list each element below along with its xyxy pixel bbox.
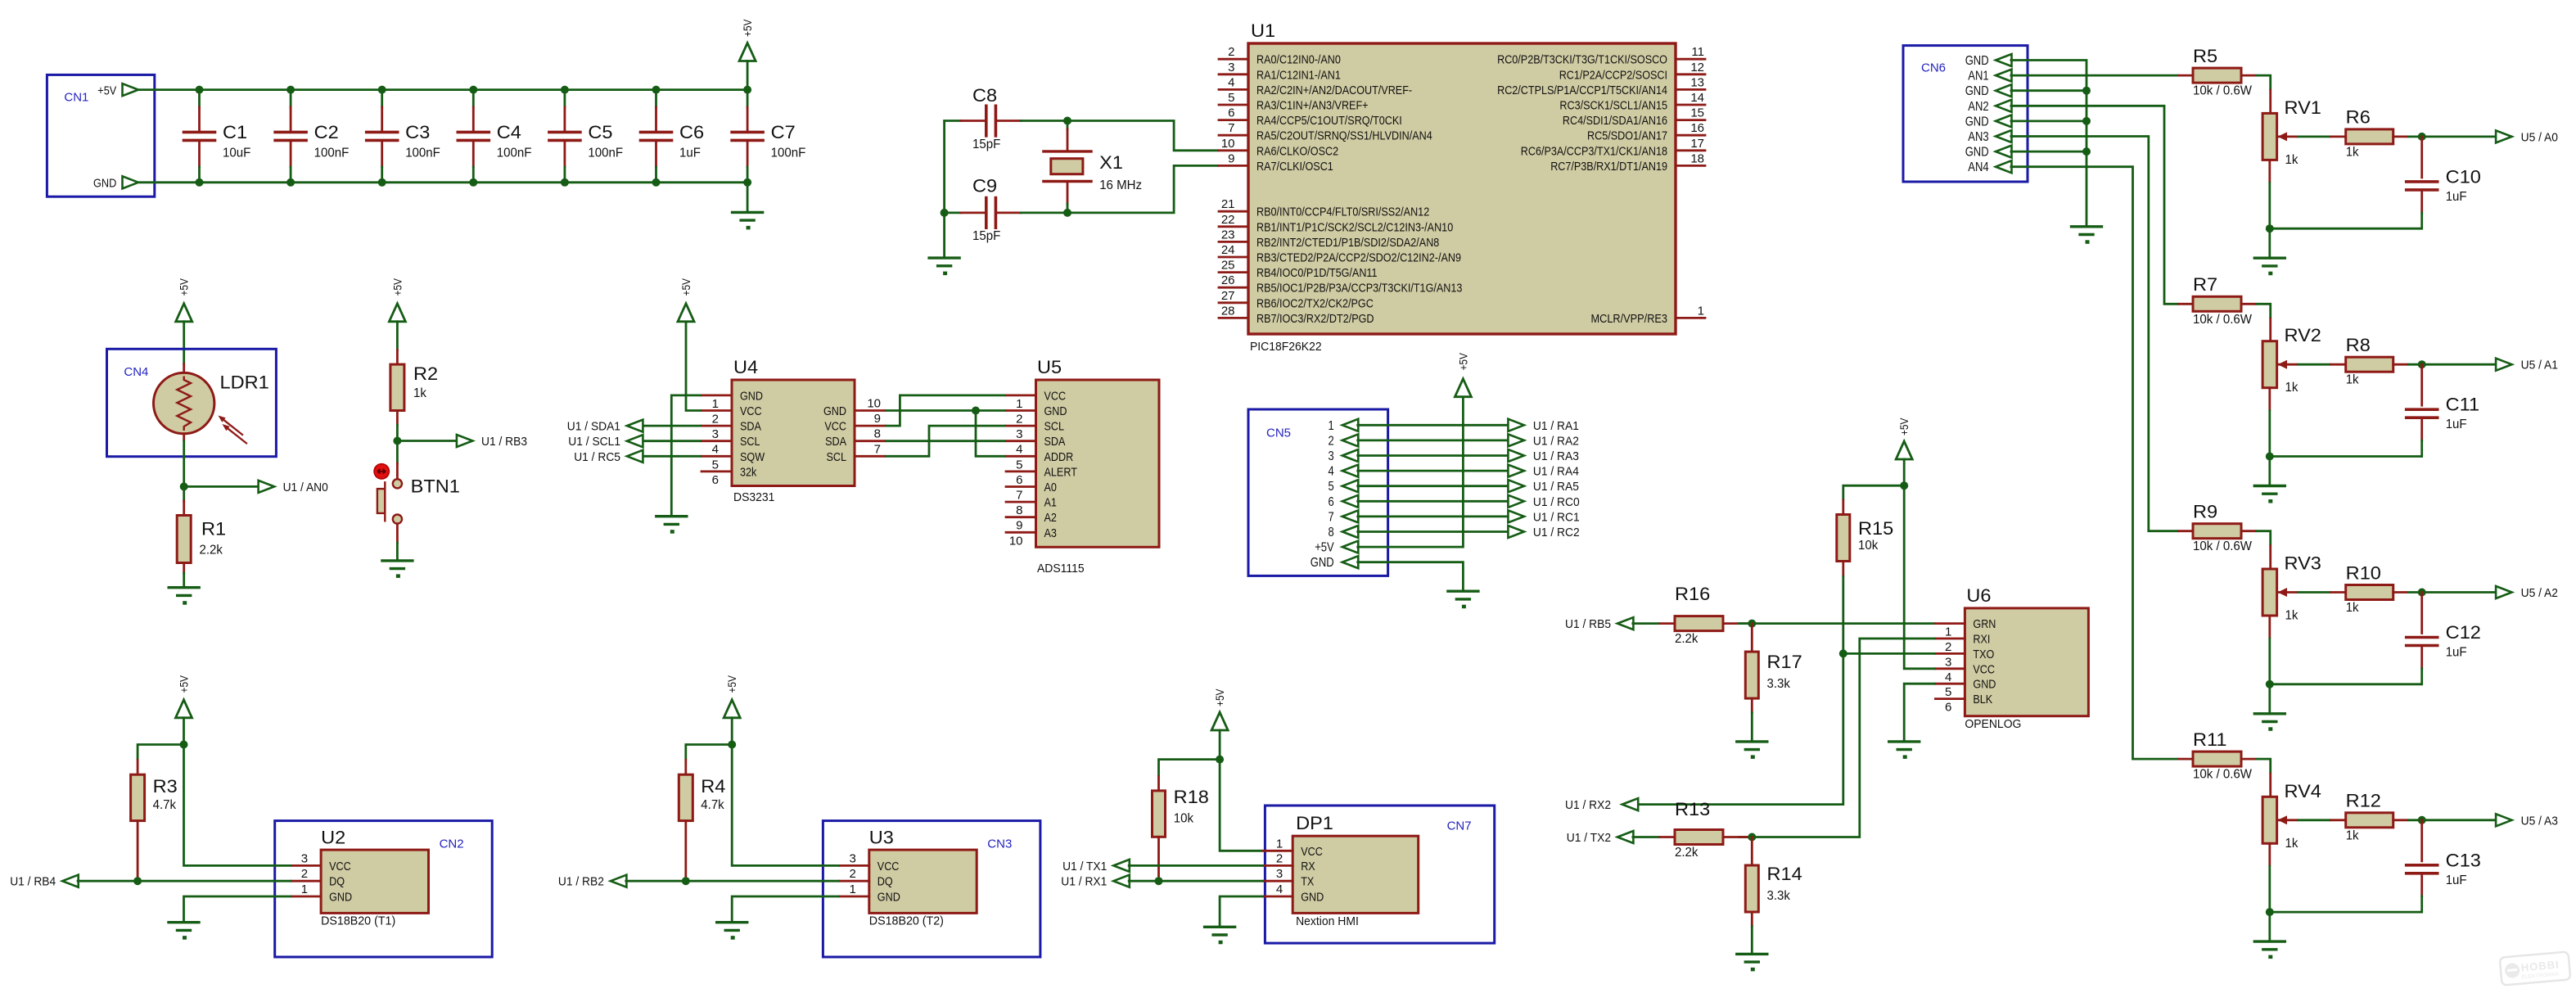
- svg-text:ADS1115: ADS1115: [1037, 562, 1085, 575]
- svg-text:VCC: VCC: [329, 860, 351, 873]
- svg-text:ADDR: ADDR: [1044, 450, 1074, 464]
- wire GND to U5 ADDR: [976, 411, 1006, 457]
- U1 pin 1 MCLR: [1591, 304, 1706, 326]
- U1 pin 9 RA7: [1219, 151, 1333, 174]
- U1 pin 2 RA0: [1219, 45, 1341, 67]
- svg-text:+5V: +5V: [1315, 541, 1334, 555]
- ground below CN6: [2072, 227, 2102, 244]
- U1 pin 13 RC2: [1497, 75, 1705, 97]
- junction R8 output: [2418, 360, 2426, 368]
- wire U4 SCL to U5 SCL: [885, 426, 1006, 456]
- svg-text:U1 / TX2: U1 / TX2: [1567, 831, 1611, 845]
- svg-text:AN1: AN1: [1968, 70, 1988, 84]
- U1 pin 21 RB0: [1219, 197, 1429, 219]
- svg-text:+5V: +5V: [390, 278, 404, 296]
- svg-text:BTN1: BTN1: [411, 476, 460, 497]
- CN5 pin 3: [1329, 449, 1359, 463]
- svg-text:GND: GND: [1973, 678, 1996, 692]
- svg-text:4: 4: [1329, 465, 1335, 479]
- svg-text:VCC: VCC: [1301, 845, 1323, 859]
- svg-text:U5 / A2: U5 / A2: [2521, 586, 2558, 600]
- ground below R17: [1737, 742, 1767, 759]
- capacitor C5: [549, 90, 623, 183]
- wire U4 SDA to U5 SDA: [885, 440, 1006, 442]
- svg-text:RA1/C12IN1-/AN1: RA1/C12IN1-/AN1: [1256, 68, 1341, 82]
- svg-text:VCC: VCC: [740, 404, 762, 418]
- wire CN5 8 to label: [1356, 530, 1509, 533]
- svg-text:RC7/P3B/RX1/DT1/AN19: RC7/P3B/RX1/DT1/AN19: [1550, 160, 1667, 174]
- U4 pin 4 SCL: [702, 435, 760, 457]
- svg-text:RV3: RV3: [2285, 553, 2321, 574]
- svg-text:RXI: RXI: [1973, 633, 1990, 647]
- junction C6 bottom: [652, 178, 661, 187]
- svg-text:1: 1: [1016, 397, 1022, 411]
- junction C5 bottom: [561, 178, 569, 187]
- svg-text:RB2/INT2/CTED1/P1B/SDI2/SDA2/A: RB2/INT2/CTED1/P1B/SDI2/SDA2/AN8: [1256, 236, 1439, 250]
- svg-text:3: 3: [1016, 427, 1022, 441]
- svg-text:1k: 1k: [2285, 837, 2299, 851]
- svg-text:SDA: SDA: [740, 420, 761, 434]
- wire node RB3 to label: [397, 440, 458, 442]
- svg-text:TX: TX: [1301, 875, 1314, 889]
- svg-text:R5: R5: [2193, 46, 2217, 66]
- svg-text:U6: U6: [1966, 585, 1991, 606]
- svg-text:RV2: RV2: [2285, 325, 2321, 345]
- svg-text:U1 / RC0: U1 / RC0: [1533, 495, 1580, 509]
- svg-text:C11: C11: [2446, 395, 2479, 415]
- svg-text:A2: A2: [1044, 511, 1057, 525]
- svg-text:9: 9: [874, 412, 881, 426]
- wire RV4 wiper to R12: [2297, 819, 2331, 821]
- U1 pin 15 RC4: [1563, 106, 1705, 129]
- svg-text:R2: R2: [413, 363, 438, 384]
- wire +5V to R15: [1843, 485, 1904, 500]
- svg-text:RA7/CLKI/OSC1: RA7/CLKI/OSC1: [1256, 160, 1333, 174]
- wire U4 SCL to label: [641, 440, 702, 442]
- svg-text:RA2/C2IN+/AN2/DACOUT/VREF-: RA2/C2IN+/AN2/DACOUT/VREF-: [1256, 84, 1412, 97]
- wire TXO node down to RX2: [1636, 653, 1843, 804]
- CN6 pin GND: [1965, 146, 2012, 160]
- power +5V above U3: [724, 675, 740, 744]
- svg-text:2: 2: [1329, 434, 1334, 448]
- wire TX1 to DP1 RX: [1128, 864, 1263, 867]
- svg-text:4: 4: [1016, 443, 1022, 457]
- svg-text:Nextion HMI: Nextion HMI: [1296, 914, 1359, 928]
- ground below U2: [169, 923, 199, 940]
- potentiometer RV1: [2262, 90, 2321, 182]
- wire RV2 wiper to R8: [2297, 363, 2331, 366]
- ground below C8 C9: [929, 258, 959, 275]
- svg-text:ALERT: ALERT: [1044, 465, 1077, 479]
- svg-text:U1 / RA1: U1 / RA1: [1533, 419, 1579, 433]
- resistor R13: [1660, 799, 1752, 860]
- power +5V above R2: [389, 278, 405, 350]
- junction C1 bottom: [196, 178, 204, 187]
- svg-text:U1 / RB2: U1 / RB2: [558, 875, 604, 889]
- wire +5V down to U2 VCC: [184, 745, 292, 866]
- wire U4 SDA to label: [641, 425, 702, 427]
- svg-text:10k: 10k: [1174, 812, 1194, 826]
- svg-text:R14: R14: [1767, 864, 1802, 884]
- svg-text:U5 / A1: U5 / A1: [2521, 359, 2558, 372]
- U4 pin 1 GND: [702, 389, 763, 411]
- svg-text:R16: R16: [1675, 584, 1710, 604]
- U1 pin 14 RC3: [1559, 91, 1705, 113]
- svg-text:RB0/INT0/CCP4/FLT0/SRI/SS2/AN1: RB0/INT0/CCP4/FLT0/SRI/SS2/AN12: [1256, 205, 1429, 219]
- svg-text:GND: GND: [1965, 115, 1989, 129]
- wire U4 GND down: [671, 395, 702, 517]
- junction R18 RX1: [1155, 877, 1163, 885]
- svg-text:+5V: +5V: [679, 278, 692, 296]
- svg-text:4.7k: 4.7k: [701, 798, 724, 812]
- U5 pin 4 SDA: [1006, 435, 1065, 457]
- wire +5V down to U3 VCC: [732, 745, 840, 866]
- wire CN5 5 to label: [1356, 485, 1509, 487]
- U1 pin 28 RB7: [1219, 304, 1374, 326]
- net label U1 / TX2: [1567, 831, 1634, 845]
- net label U5 / A0: [2496, 130, 2558, 144]
- svg-text:LDR1: LDR1: [220, 372, 269, 393]
- power +5V above U4: [678, 278, 694, 321]
- svg-text:1k: 1k: [2285, 153, 2299, 167]
- connector CN4 box: [107, 349, 277, 456]
- U1 pin 7 RA5: [1219, 121, 1432, 143]
- svg-text:10k / 0.6W: 10k / 0.6W: [2193, 84, 2253, 98]
- svg-text:15pF: 15pF: [972, 229, 1001, 243]
- svg-text:DS18B20 (T2): DS18B20 (T2): [869, 914, 944, 928]
- wire +5V down to DP1 VCC: [1220, 760, 1263, 851]
- svg-text:7: 7: [1329, 510, 1334, 524]
- svg-text:GND: GND: [93, 177, 116, 191]
- svg-text:8: 8: [1016, 503, 1022, 517]
- net label U1 / RC1: [1508, 510, 1579, 524]
- svg-text:3: 3: [849, 851, 855, 865]
- U4 pin 5 SQW: [702, 450, 765, 472]
- wire U4 GND to U5 GND: [885, 409, 1006, 412]
- resistor R18: [1153, 777, 1209, 882]
- U6 pin 2 RXI: [1935, 633, 1990, 655]
- svg-text:1: 1: [1329, 419, 1334, 433]
- svg-text:RA4/CCP5/C1OUT/SRQ/T0CKI: RA4/CCP5/C1OUT/SRQ/T0CKI: [1256, 114, 1402, 128]
- capacitor C10: [2407, 137, 2481, 228]
- junction X1 bottom: [1063, 209, 1071, 217]
- svg-text:10: 10: [867, 397, 881, 411]
- svg-text:RV1: RV1: [2285, 97, 2321, 118]
- svg-text:2: 2: [1016, 413, 1022, 427]
- svg-text:MCLR/VPP/RE3: MCLR/VPP/RE3: [1591, 312, 1668, 326]
- CN1 pin +5V: [97, 84, 138, 97]
- svg-text:U2: U2: [321, 828, 345, 848]
- svg-text:GND: GND: [877, 891, 900, 905]
- U4 pin 3 SDA: [702, 420, 761, 442]
- photoresistor LDR1: [154, 364, 269, 444]
- svg-text:5: 5: [1016, 458, 1022, 472]
- junction RV4 bottom: [2266, 908, 2274, 916]
- svg-text:24: 24: [1221, 243, 1235, 257]
- svg-text:2: 2: [712, 413, 719, 427]
- capacitor C13: [2407, 820, 2481, 912]
- svg-text:23: 23: [1221, 228, 1235, 241]
- wire R16 to U6 GRN: [1738, 622, 1935, 625]
- U4 pin 6 32k: [702, 465, 757, 487]
- U5 pin 7 A0: [1006, 481, 1057, 503]
- resistor R11: [2179, 729, 2256, 782]
- svg-text:2: 2: [1228, 45, 1234, 59]
- svg-text:U1 / TX1: U1 / TX1: [1062, 860, 1107, 873]
- svg-text:8: 8: [1329, 526, 1334, 539]
- svg-text:CN5: CN5: [1266, 427, 1291, 440]
- capacitor C11: [2407, 364, 2479, 456]
- wire OSC2 to U1 RA6: [1067, 121, 1219, 151]
- svg-text:GND: GND: [1965, 54, 1989, 68]
- svg-text:4.7k: 4.7k: [153, 798, 177, 812]
- wire RV1 wiper to R6: [2297, 135, 2331, 138]
- junction +5V U3: [728, 741, 736, 749]
- svg-text:3: 3: [712, 427, 719, 441]
- svg-text:R13: R13: [1675, 799, 1710, 819]
- svg-text:C8: C8: [972, 85, 997, 106]
- U5 pin 5 ADDR: [1006, 450, 1073, 472]
- junction node AN0: [180, 482, 188, 490]
- resistor R10: [2331, 562, 2408, 615]
- CN6 pin AN4: [1968, 160, 2011, 174]
- ground below DP1: [1205, 927, 1235, 944]
- U2 pin 1 GND: [291, 882, 352, 905]
- wire +5V to U4 VCC: [686, 322, 702, 411]
- wire CN6 AN1 to R5: [2010, 74, 2179, 77]
- U5 pin 9 A2: [1006, 511, 1057, 533]
- capacitor C7: [732, 90, 805, 183]
- resistor R16: [1660, 584, 1752, 646]
- net label U1 / RX2: [1565, 798, 1638, 812]
- net label U5 / A1: [2496, 359, 2558, 372]
- svg-text:SQW: SQW: [740, 450, 765, 464]
- svg-text:6: 6: [712, 473, 719, 487]
- wire CN5 6 to label: [1356, 500, 1509, 503]
- svg-text:3: 3: [1329, 449, 1334, 463]
- svg-text:10k / 0.6W: 10k / 0.6W: [2193, 768, 2253, 782]
- svg-text:10k / 0.6W: 10k / 0.6W: [2193, 313, 2253, 327]
- net label U5 / A3: [2496, 814, 2558, 828]
- junction GND bus 2: [2082, 87, 2091, 95]
- ground below R14: [1737, 954, 1767, 971]
- junction R10 output: [2418, 589, 2426, 597]
- wire RV1 bottom to C10: [2270, 228, 2422, 230]
- svg-text:VCC: VCC: [1973, 662, 1995, 676]
- wire DP1 GND: [1220, 896, 1263, 927]
- svg-text:5: 5: [1329, 480, 1334, 494]
- junction RV3 bottom: [2266, 680, 2274, 688]
- potentiometer RV4: [2262, 774, 2321, 865]
- resistor R8: [2331, 335, 2408, 387]
- svg-text:7: 7: [1016, 489, 1022, 503]
- net label U1 / RX1: [1061, 875, 1130, 889]
- svg-text:1uF: 1uF: [2446, 646, 2467, 660]
- U5 pin 8 A1: [1006, 496, 1057, 518]
- svg-text:13: 13: [1690, 75, 1704, 89]
- junction R16 R17: [1748, 620, 1756, 628]
- svg-text:RV4: RV4: [2285, 781, 2321, 801]
- wire CN6 GND3: [2010, 120, 2087, 122]
- svg-text:10: 10: [1009, 534, 1023, 548]
- ground below CN5: [1448, 591, 1478, 608]
- junction +5V U6: [1900, 481, 1908, 490]
- junction R6 output: [2418, 133, 2426, 141]
- svg-text:17: 17: [1690, 137, 1704, 151]
- svg-text:1: 1: [301, 882, 308, 896]
- svg-text:RX: RX: [1301, 860, 1315, 873]
- power +5V above U6: [1896, 418, 1912, 485]
- svg-text:12: 12: [1690, 61, 1704, 74]
- junction X1 top: [1063, 117, 1071, 125]
- wire CN5 7 to label: [1356, 516, 1509, 518]
- svg-text:DP1: DP1: [1296, 813, 1333, 833]
- svg-text:32k: 32k: [740, 465, 757, 479]
- svg-text:U1 / RB4: U1 / RB4: [10, 875, 56, 889]
- U1 pin 27 RB6: [1219, 289, 1374, 311]
- junction R3 DQ: [133, 877, 142, 885]
- U1 pin 16 RC5: [1587, 121, 1705, 143]
- wire CN5 4 to label: [1356, 470, 1509, 472]
- wire U1 / RB4 to U2 DQ: [77, 880, 291, 882]
- wire R5 to RV1: [2255, 75, 2270, 90]
- crystal X1 16 MHz: [1044, 121, 1142, 213]
- wire CN5 1 to label: [1356, 424, 1509, 427]
- U1 pin 5 RA3: [1219, 91, 1369, 113]
- U3 pin 2 DQ: [840, 867, 893, 889]
- net label U1 / RB5: [1565, 617, 1633, 631]
- svg-text:C3: C3: [405, 122, 430, 142]
- U3 pin 3 VCC: [840, 851, 900, 873]
- wire U6 RXI down: [1738, 639, 1935, 837]
- connector CN7 box: [1265, 806, 1494, 943]
- CN5 pin 2: [1329, 434, 1359, 448]
- net label U1 / RA2: [1508, 434, 1579, 448]
- svg-text:U1 / RA4: U1 / RA4: [1533, 465, 1579, 479]
- svg-text:R9: R9: [2193, 502, 2217, 522]
- CN5 pin 8: [1329, 526, 1359, 539]
- svg-text:GRN: GRN: [1973, 617, 1996, 631]
- wire RV1 bottom: [2268, 182, 2271, 228]
- svg-text:1: 1: [1945, 625, 1951, 639]
- svg-text:1: 1: [849, 882, 855, 896]
- resistor R5: [2179, 46, 2256, 98]
- junction C7 top: [743, 86, 751, 94]
- svg-text:6: 6: [1329, 495, 1334, 509]
- wire CN6 GND4: [2010, 151, 2087, 153]
- junction C2 bottom: [286, 178, 295, 187]
- ground below RV3: [2254, 684, 2285, 731]
- ground below U3: [717, 923, 747, 940]
- ground below BTN1: [382, 561, 413, 578]
- svg-text:R1: R1: [201, 519, 226, 539]
- ic U5 body: [1036, 357, 1160, 575]
- wire CN5 2 to label: [1356, 440, 1509, 442]
- wire RV3 bottom to C12: [2270, 683, 2422, 685]
- svg-text:100nF: 100nF: [497, 147, 532, 160]
- ic U3 body: [869, 828, 977, 928]
- svg-text:U1 / RC1: U1 / RC1: [1533, 510, 1580, 524]
- U1 pin 3 RA1: [1219, 61, 1341, 83]
- U1 pin 18 RC7: [1550, 151, 1705, 174]
- net label U1 / RA3: [1508, 449, 1579, 463]
- svg-text:R3: R3: [153, 776, 178, 797]
- junction R4 DQ: [682, 877, 690, 885]
- svg-text:R18: R18: [1174, 787, 1209, 807]
- junction C2 top: [286, 86, 295, 94]
- svg-text:C9: C9: [972, 176, 997, 196]
- svg-text:GND: GND: [823, 404, 846, 418]
- svg-text:U1 / RB3: U1 / RB3: [481, 435, 527, 449]
- push button BTN1: [374, 441, 460, 561]
- svg-text:3.3k: 3.3k: [1767, 677, 1791, 691]
- svg-text:GND: GND: [1301, 891, 1324, 905]
- junction RV2 bottom: [2266, 453, 2274, 461]
- net label U1 / RC2: [1508, 526, 1579, 539]
- U6 pin 5 GND: [1935, 678, 1996, 700]
- svg-text:U1 / RB5: U1 / RB5: [1565, 617, 1611, 631]
- CN6 pin AN3: [1968, 130, 2011, 144]
- U6 pin 3 TXO: [1935, 648, 1994, 670]
- svg-text:1k: 1k: [413, 386, 427, 400]
- resistor R12: [2331, 791, 2408, 843]
- svg-text:3: 3: [1276, 867, 1283, 881]
- svg-text:7: 7: [1228, 121, 1234, 135]
- svg-text:U1 / AN0: U1 / AN0: [283, 481, 328, 494]
- svg-text:R17: R17: [1767, 652, 1802, 672]
- connector CN3 box: [823, 821, 1040, 957]
- svg-text:DQ: DQ: [329, 875, 345, 889]
- DP1 pin 4 GND: [1263, 882, 1324, 905]
- svg-text:A1: A1: [1044, 496, 1057, 510]
- svg-text:CN6: CN6: [1921, 61, 1946, 75]
- svg-text:RC2/CTPLS/P1A/CCP1/T5CKI/AN14: RC2/CTPLS/P1A/CCP1/T5CKI/AN14: [1497, 84, 1667, 97]
- svg-text:RB6/IOC2/TX2/CK2/PGC: RB6/IOC2/TX2/CK2/PGC: [1256, 296, 1374, 310]
- net label U1 / SDA1: [567, 420, 643, 434]
- ground below RV1: [2254, 228, 2285, 275]
- svg-text:U1 / SDA1: U1 / SDA1: [567, 420, 620, 434]
- svg-text:2: 2: [1945, 640, 1951, 654]
- svg-text:RA3/C1IN+/AN3/VREF+: RA3/C1IN+/AN3/VREF+: [1256, 99, 1369, 113]
- U1 pin 4 RA2: [1219, 75, 1412, 97]
- svg-text:RC1/P2A/CCP2/SOSCI: RC1/P2A/CCP2/SOSCI: [1559, 68, 1667, 82]
- svg-text:GND: GND: [1044, 404, 1067, 418]
- svg-text:C4: C4: [497, 122, 521, 142]
- ground below C7: [733, 183, 763, 230]
- svg-text:1k: 1k: [2346, 601, 2360, 615]
- svg-text:OPENLOG: OPENLOG: [1965, 717, 2021, 731]
- U1 pin 25 RB4: [1219, 259, 1378, 281]
- wire R15 to TXO node: [1842, 575, 1844, 653]
- net label U1 / RA5: [1508, 480, 1579, 494]
- net label U5 / A2: [2496, 586, 2558, 600]
- wire +5V to R U2: [138, 745, 183, 761]
- svg-text:GND: GND: [1965, 84, 1989, 98]
- svg-text:C10: C10: [2446, 166, 2481, 187]
- svg-text:3: 3: [1228, 61, 1234, 74]
- U5 pin 10 A3: [1006, 526, 1057, 548]
- CN1 pin GND: [93, 176, 138, 190]
- U5 pin 1 VCC: [1006, 389, 1066, 411]
- CN5 pin +5V: [1315, 541, 1358, 555]
- U6 pin 4 VCC: [1935, 662, 1995, 684]
- svg-text:GND: GND: [1965, 146, 1989, 160]
- svg-text:SDA: SDA: [1044, 435, 1066, 449]
- svg-text:9: 9: [1228, 151, 1234, 165]
- DP1 pin 2 RX: [1263, 851, 1315, 873]
- ic U2 body: [321, 828, 428, 928]
- ground below RV4: [2254, 912, 2285, 959]
